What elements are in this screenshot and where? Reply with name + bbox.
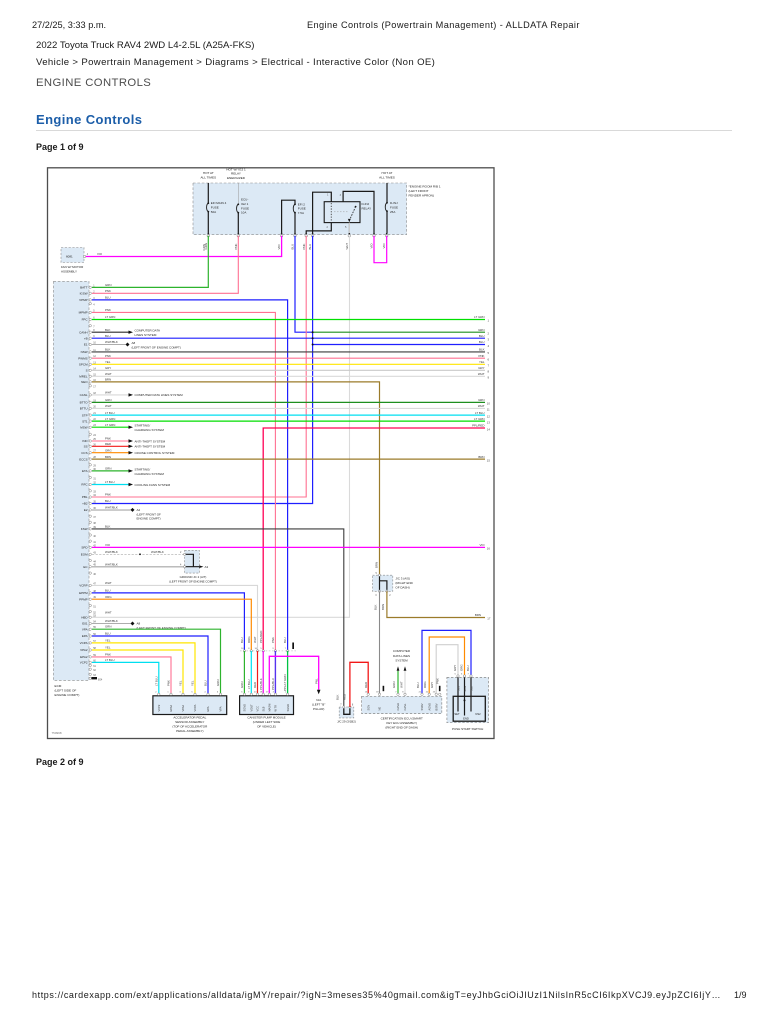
- svg-text:GRN: GRN: [105, 467, 111, 471]
- svg-text:VIO: VIO: [480, 543, 486, 547]
- wire WHT/BLK EC to ground JC 2: [92, 566, 185, 568]
- svg-text:+B: +B: [84, 336, 88, 340]
- svg-text:WHT/BLK: WHT/BLK: [105, 506, 118, 510]
- ECM pin 34 PBL: [82, 493, 111, 500]
- svg-text:GROUND JC 2 (A/T): GROUND JC 2 (A/T): [180, 575, 207, 579]
- svg-text:GRN: GRN: [392, 682, 396, 688]
- svg-text:PNK: PNK: [105, 437, 111, 441]
- fuse D-INJ 25A: [385, 183, 398, 233]
- wire PPL/BLK canister connector to pump: [262, 651, 264, 694]
- cert ECU shield stub: [439, 686, 441, 691]
- svg-text:BTTU: BTTU: [80, 407, 88, 411]
- ECM pin 16 NEO: [81, 378, 111, 385]
- ECM pin 52: [89, 610, 97, 614]
- svg-text:SPCM: SPCM: [79, 363, 88, 367]
- svg-text:BLU: BLU: [105, 499, 111, 503]
- ECM pin 6 FPC: [82, 315, 116, 322]
- svg-text:IGSW: IGSW: [80, 292, 88, 296]
- svg-text:(LEFT FRONT OF ENGINE COMPT): (LEFT FRONT OF ENGINE COMPT): [169, 580, 217, 584]
- wire LT GRN ST1 to right edge 13: [92, 420, 485, 422]
- ECM pin 15 MREL: [79, 372, 112, 379]
- svg-text:VCPA: VCPA: [80, 641, 88, 645]
- fuse EFI 2 7.5A with feed loop: [282, 200, 306, 233]
- ECM pin 1 BATT: [80, 283, 111, 290]
- svg-text:PPMP: PPMP: [79, 597, 88, 601]
- svg-text:PWMS: PWMS: [78, 356, 87, 360]
- svg-text:BLK: BLK: [105, 525, 111, 529]
- svg-text:VIO: VIO: [370, 243, 374, 249]
- svg-text:SS1: SS1: [457, 686, 460, 691]
- wire WHT CANL to computer data lines arrow: [92, 394, 129, 396]
- svg-text:ORG: ORG: [460, 664, 464, 671]
- svg-text:LT BLU: LT BLU: [247, 679, 251, 689]
- svg-text:YEL: YEL: [479, 360, 485, 364]
- svg-text:BLU: BLU: [240, 637, 244, 643]
- svg-text:ECCS: ECCS: [79, 457, 87, 461]
- svg-text:NEO: NEO: [81, 380, 88, 384]
- ECM pin 42 SPD: [81, 543, 110, 550]
- wire GRN canister connector to pump: [243, 651, 245, 694]
- svg-text:CANL: CANL: [80, 393, 88, 397]
- svg-text:WHT: WHT: [253, 636, 257, 643]
- svg-text:VCC: VCC: [256, 706, 260, 712]
- wire WHT VCRP down to canister connector: [92, 585, 258, 651]
- svg-text:GRY: GRY: [453, 665, 457, 671]
- ECM pin 7: [89, 325, 95, 329]
- svg-text:EPA: EPA: [82, 634, 88, 638]
- svg-text:VIO: VIO: [277, 244, 281, 250]
- svg-text:CANISTER PUMP MODULE: CANISTER PUMP MODULE: [247, 716, 285, 720]
- svg-text:SLB: SLB: [261, 706, 265, 711]
- ECM pin 24: [89, 433, 97, 437]
- J/C 29 box: [339, 704, 354, 718]
- svg-text:PNK: PNK: [167, 680, 171, 686]
- svg-text:FUSE: FUSE: [211, 206, 219, 210]
- ECM pin 62: [89, 668, 97, 672]
- wire relay pin3 to VIO loop: [343, 191, 374, 233]
- svg-text:RFC: RFC: [81, 483, 88, 487]
- wire WHT MREL to right edge 9: [92, 375, 485, 377]
- wire BLU from relay coil down to ECM +B2: [92, 236, 313, 504]
- svg-text:WHT/BLK: WHT/BLK: [105, 619, 118, 623]
- svg-text:BLU: BLU: [105, 296, 111, 300]
- svg-text:SYSTEM: SYSTEM: [395, 659, 408, 663]
- svg-text:YEL: YEL: [179, 680, 183, 686]
- svg-text:PNK: PNK: [105, 493, 111, 497]
- svg-text:PNK: PNK: [234, 243, 238, 249]
- J/C 3 box: [373, 572, 393, 597]
- svg-text:RELAY: RELAY: [362, 206, 372, 210]
- svg-text:ORG: ORG: [247, 636, 251, 643]
- svg-text:GRN: GRN: [240, 682, 244, 688]
- svg-text:25A: 25A: [390, 210, 395, 214]
- push start switch box: [447, 664, 489, 723]
- svg-text:CANH: CANH: [396, 703, 400, 710]
- svg-text:ORG: ORG: [105, 448, 112, 452]
- ECM pin 55 VPA: [82, 625, 112, 632]
- svg-text:J/C 3 (A/S): J/C 3 (A/S): [395, 576, 410, 580]
- svg-text:RED: RED: [253, 682, 257, 688]
- svg-text:COMPUTER DATA LINES SYSTEM: COMPUTER DATA LINES SYSTEM: [135, 393, 184, 397]
- cert ECU shield stub near NE pin: [383, 686, 385, 691]
- engine room relay block R/B box: [193, 183, 407, 235]
- svg-text:A3: A3: [205, 565, 209, 569]
- svg-text:ENGINE COMPT): ENGINE COMPT): [55, 693, 80, 697]
- wire BLU cert ECU to push start switch: [422, 630, 471, 694]
- wire BLU EPPM down to canister connector: [92, 593, 244, 651]
- svg-text:STP: STP: [82, 413, 88, 417]
- svg-text:VPA: VPA: [219, 706, 223, 711]
- svg-text:RED: RED: [342, 694, 346, 700]
- svg-text:BLK: BLK: [374, 604, 378, 610]
- svg-text:WHT: WHT: [345, 243, 349, 250]
- wire BLU feed to relay coil pin1: [313, 192, 332, 233]
- svg-text:PNK: PNK: [105, 308, 111, 312]
- svg-text:EFI MAIN 4: EFI MAIN 4: [211, 201, 227, 205]
- ECM pin 59 EPA2: [80, 652, 111, 659]
- ECM pin 47 VCRP: [79, 581, 112, 588]
- svg-text:ETA: ETA: [82, 469, 88, 473]
- ECM pin 12 PWMS: [78, 354, 111, 361]
- svg-text:6081: 6081: [66, 255, 73, 259]
- svg-text:RED: RED: [364, 682, 368, 688]
- svg-text:LT GRN: LT GRN: [105, 417, 115, 421]
- svg-text:BLU: BLU: [204, 680, 208, 686]
- ECM box: [53, 281, 89, 680]
- diagram outer frame: [48, 168, 495, 739]
- svg-text:SGND: SGND: [286, 704, 290, 712]
- svg-text:PPL/RED: PPL/RED: [259, 631, 263, 643]
- svg-text:A8: A8: [132, 341, 136, 345]
- certification ECU box: [362, 692, 442, 714]
- svg-text:WHT: WHT: [478, 372, 485, 376]
- svg-text:ST1: ST1: [82, 419, 88, 423]
- ECM pin 39 KSW: [81, 525, 111, 532]
- svg-text:PNL: PNL: [314, 678, 318, 684]
- svg-text:OF DASH): OF DASH): [395, 585, 409, 589]
- svg-text:16: 16: [487, 547, 491, 551]
- svg-text:WHT: WHT: [478, 404, 485, 408]
- svg-text:BLU: BLU: [105, 334, 111, 338]
- wire relay pin5 WHT: [348, 223, 350, 234]
- svg-text:BLU: BLU: [479, 334, 485, 338]
- svg-text:COMPUTER: COMPUTER: [393, 649, 411, 653]
- label HOT W/ IG2 1 RELAY ENERGIZED: [226, 167, 246, 180]
- svg-text:BLU: BLU: [416, 682, 420, 688]
- wire GRN junction to right edge 2: [313, 331, 485, 333]
- ECM pin 5 MPMP: [79, 308, 111, 315]
- svg-text:YEL: YEL: [105, 360, 111, 364]
- svg-text:ASSEMBLY: ASSEMBLY: [61, 269, 77, 273]
- svg-text:E04: E04: [98, 678, 103, 681]
- svg-text:PNK: PNK: [479, 354, 485, 358]
- svg-text:BRN: BRN: [105, 378, 111, 382]
- svg-text:PPL/LT GRN: PPL/LT GRN: [283, 674, 287, 691]
- svg-text:NS2: NS2: [475, 712, 481, 716]
- wire relay pin2 to PNK feed: [306, 223, 331, 234]
- fuse ECU-IG2 1 10A: [237, 183, 249, 233]
- label canister pump module: [247, 716, 285, 729]
- svg-text:(LEFT FRONT OF ENGINE COMPT): (LEFT FRONT OF ENGINE COMPT): [132, 346, 181, 350]
- svg-text:HOT AT: HOT AT: [382, 171, 393, 175]
- svg-text:LT BLU: LT BLU: [155, 676, 159, 686]
- svg-text:NSW: NSW: [81, 350, 88, 354]
- svg-text:NSW: NSW: [464, 686, 467, 692]
- ECM pin 3 VPMP: [79, 296, 111, 303]
- vertical labels accel pedal wires: [155, 676, 221, 686]
- wire PPL/BLU canister connector to pump: [274, 651, 276, 694]
- svg-text:VPA2: VPA2: [181, 705, 185, 712]
- svg-text:FENDER APRON): FENDER APRON): [409, 193, 434, 197]
- wire PNL magenta to B pillar: [269, 656, 318, 694]
- svg-text:BRN: BRN: [478, 455, 484, 459]
- svg-text:LT GRN: LT GRN: [105, 423, 115, 427]
- svg-text:GRY: GRY: [478, 366, 484, 370]
- ECM pin 51: [89, 604, 97, 608]
- svg-text:(UNDER LEFT SIDE: (UNDER LEFT SIDE: [253, 720, 281, 724]
- svg-text:ORG: ORG: [105, 595, 112, 599]
- svg-text:7.5A: 7.5A: [298, 211, 304, 215]
- svg-text:VCRP: VCRP: [79, 584, 87, 588]
- ECM pin 53 HBD: [81, 610, 112, 619]
- svg-text:GRY: GRY: [105, 366, 111, 370]
- svg-text:ANTI-THEFT SYSTEM: ANTI-THEFT SYSTEM: [135, 445, 166, 449]
- wire WHT/BLK EOM to ground JC 2: [92, 553, 185, 555]
- svg-text:BLU: BLU: [105, 631, 111, 635]
- canister inline connector row: [240, 648, 296, 652]
- label accelerator pedal sensor assembly: [172, 716, 208, 734]
- svg-text:WHT/BLK: WHT/BLK: [105, 340, 118, 344]
- ECM pin 2 IGSW: [80, 289, 111, 296]
- wire LT BLU canister connector to pump: [250, 651, 252, 694]
- svg-text:PPL/RED: PPL/RED: [472, 424, 484, 428]
- svg-text:ALL TIMES: ALL TIMES: [379, 175, 395, 179]
- svg-text:15: 15: [487, 458, 491, 462]
- svg-text:FUSE: FUSE: [390, 205, 398, 209]
- ECM pin 63: [89, 673, 97, 677]
- svg-text:SET: SET: [454, 712, 460, 716]
- svg-text:17: 17: [487, 617, 491, 621]
- svg-text:LT GRN: LT GRN: [474, 315, 484, 319]
- ECM pin 41: [89, 540, 97, 544]
- svg-text:SS: SS: [84, 445, 88, 449]
- svg-text:GRN: GRN: [202, 244, 206, 250]
- ECM pin 19 BTTO: [80, 398, 112, 405]
- svg-text:ENGINE COMPT): ENGINE COMPT): [137, 517, 161, 521]
- svg-text:(LEFT SIDE OF: (LEFT SIDE OF: [55, 689, 77, 693]
- ECM pin 54 E01: [82, 619, 118, 626]
- svg-text:VPA: VPA: [82, 627, 88, 631]
- svg-text:VOUT: VOUT: [250, 704, 254, 712]
- svg-text:VCP2: VCP2: [157, 704, 161, 711]
- svg-text:WHT: WHT: [105, 581, 112, 585]
- svg-text:YEL: YEL: [105, 638, 111, 642]
- svg-text:NE: NE: [378, 707, 382, 711]
- canister pump module box: [240, 692, 294, 715]
- wire color labels below relay block: [204, 243, 386, 250]
- ECM pin 10 E1: [84, 340, 118, 347]
- svg-text:(LEFT FRONT OF: (LEFT FRONT OF: [137, 512, 162, 516]
- svg-text:RELAY: RELAY: [231, 171, 241, 175]
- svg-text:RED: RED: [105, 442, 111, 446]
- wire BLU from EFI 2 fuse down to junction: [295, 236, 313, 332]
- svg-text:VCPA: VCPA: [193, 704, 197, 711]
- svg-text:PNK: PNK: [271, 637, 275, 643]
- svg-text:SS2: SS2: [470, 686, 473, 691]
- ECM pin 23 MSW: [80, 423, 115, 430]
- wire ORG cert ECU to push start switch: [429, 637, 464, 694]
- ECM pin 45 EC: [83, 562, 117, 569]
- wire BLK J/C 3 to certification ECU: [379, 591, 381, 694]
- svg-text:50A: 50A: [211, 210, 216, 214]
- svg-text:KSW: KSW: [81, 527, 88, 531]
- svg-text:EPA2: EPA2: [80, 655, 88, 659]
- svg-text:(RIGHT END OF DASH): (RIGHT END OF DASH): [385, 726, 418, 730]
- wire BLU VPMP down to canister connector: [92, 300, 288, 651]
- wire PPL/LT GRN canister connector to pump: [287, 651, 289, 694]
- ECM pin 48 EPPM: [79, 589, 111, 596]
- svg-text:W TR: W TR: [274, 705, 278, 712]
- svg-text:BRN: BRN: [381, 604, 385, 610]
- svg-text:BLK: BLK: [336, 694, 340, 700]
- svg-text:PILLAR): PILLAR): [313, 707, 324, 711]
- svg-text:EPA2: EPA2: [169, 705, 173, 712]
- ECM pin 46: [89, 572, 97, 576]
- svg-text:PNK: PNK: [302, 243, 306, 249]
- wire VIO SPD to right edge 16: [92, 546, 485, 548]
- right edge wire labels and numbers: [472, 315, 485, 547]
- ECM pin 25 IND: [82, 437, 111, 444]
- fuse EFI MAIN 4 50A: [207, 183, 227, 233]
- ECM pin 35 +B2: [82, 499, 110, 506]
- svg-text:GRY: GRY: [430, 682, 434, 688]
- ECM pin 30 ETA: [82, 467, 111, 474]
- ECM pin 27 CCS: [81, 448, 112, 455]
- svg-text:EFI 2: EFI 2: [298, 202, 306, 206]
- svg-text:BLK: BLK: [479, 348, 485, 352]
- wire WHT/BLK E1 to ground A8: [92, 344, 126, 346]
- wire PNK EPA2 to accel pedal: [92, 657, 171, 694]
- shield terminator mark canister: [292, 643, 294, 650]
- svg-text:CERTIFICATION ECU (SMART: CERTIFICATION ECU (SMART: [381, 716, 423, 720]
- svg-text:WHT: WHT: [399, 681, 403, 688]
- svg-text:PEDAL ASSEMBLY): PEDAL ASSEMBLY): [176, 729, 203, 733]
- ECM pin 40: [89, 534, 97, 538]
- svg-text:E1: E1: [84, 343, 88, 347]
- svg-text:PPL/BLK: PPL/BLK: [259, 678, 263, 690]
- svg-text:YEL: YEL: [105, 645, 111, 649]
- svg-text:BLU: BLU: [283, 637, 287, 643]
- svg-text:+B2: +B2: [82, 502, 88, 506]
- svg-text:MREL: MREL: [79, 375, 88, 379]
- label computer data lines system above cert ECU: [393, 649, 411, 663]
- wire VIO fan motor to EFI 2 fuse: [86, 236, 282, 257]
- svg-text:BSRV: BSRV: [434, 703, 438, 710]
- svg-text:PPL/BLU: PPL/BLU: [271, 678, 275, 690]
- svg-text:ACCELERATOR PEDAL: ACCELERATOR PEDAL: [173, 716, 206, 720]
- label HOT AT ALL TIMES (left): [200, 171, 216, 179]
- svg-text:SGN: SGN: [366, 705, 370, 711]
- svg-text:EPPM: EPPM: [79, 591, 88, 595]
- wire PNK from relay pin2 down to ECM PBL: [92, 236, 306, 497]
- svg-text:BRN: BRN: [475, 613, 481, 617]
- svg-text:PNK: PNK: [105, 354, 111, 358]
- vertical labels canister upper wires: [240, 631, 287, 643]
- svg-text:GRN: GRN: [478, 328, 484, 332]
- wire GRN BTTO to right edge 10: [92, 401, 485, 403]
- svg-text:12: 12: [487, 414, 491, 418]
- svg-text:AGND: AGND: [427, 703, 431, 711]
- wire VIO U-loop under D-INJ relay: [374, 236, 387, 263]
- ECM pin 11 NSW: [81, 348, 111, 355]
- ECM pin 58 VPA2: [80, 645, 111, 652]
- fan w/ motor assembly box: [61, 248, 89, 274]
- svg-text:VPMP: VPMP: [79, 298, 88, 302]
- svg-text:HOT AT: HOT AT: [203, 171, 214, 175]
- ECM pin 56 EPA: [82, 631, 111, 638]
- svg-text:ANTI-THEFT SYSTEM: ANTI-THEFT SYSTEM: [135, 439, 166, 443]
- svg-text:S: S: [86, 369, 88, 373]
- svg-text:VIO: VIO: [97, 252, 103, 256]
- svg-text:N/A: N/A: [316, 698, 321, 702]
- wire BLK NSW to right edge 5: [92, 351, 485, 353]
- wire YEL VPA2 to accel pedal: [92, 650, 183, 694]
- svg-text:(RIGHT END: (RIGHT END: [395, 581, 413, 585]
- wire LT BLU RFC to cooling fans arrow: [92, 484, 129, 486]
- wire WHT from relay pin5 down to ECM HBD: [92, 236, 350, 618]
- wire LT GRN MSW to starting system arrow: [92, 426, 129, 428]
- ground JC 2 box: [180, 550, 208, 573]
- ECM pin 13 SPCM: [79, 360, 111, 367]
- wire WHT cert ECU to push start switch: [436, 645, 458, 695]
- ECM pin 49 PPMP: [79, 595, 112, 602]
- svg-text:WHT: WHT: [105, 391, 112, 395]
- wire BLU junction to right edge 4: [313, 344, 485, 346]
- svg-text:BLU: BLU: [105, 589, 111, 593]
- svg-text:J/C 29 (3/1B2): J/C 29 (3/1B2): [337, 719, 356, 723]
- ECM pin 14 S: [86, 366, 112, 373]
- wire BLK CANH to computer data lines arrow: [92, 331, 129, 333]
- svg-text:WHT: WHT: [105, 404, 112, 408]
- svg-text:ALL TIMES: ALL TIMES: [200, 175, 216, 179]
- svg-text:LT GRN: LT GRN: [474, 417, 484, 421]
- svg-text:E2: E2: [84, 508, 88, 512]
- svg-text:(TOP OF ACCELERATOR: (TOP OF ACCELERATOR: [172, 725, 208, 729]
- svg-text:CRUISE CONTROL SYSTEM: CRUISE CONTROL SYSTEM: [135, 451, 175, 455]
- ECM pin E04 shield stub: [89, 677, 103, 681]
- svg-text:BLK: BLK: [105, 328, 111, 332]
- svg-text:BLU: BLU: [291, 244, 295, 250]
- wire PNK PWMS to right edge 6: [92, 357, 485, 359]
- svg-text:FUSE: FUSE: [298, 207, 306, 211]
- wire WHT/BLK E2 to ground A2: [92, 509, 131, 511]
- wire ORG PPMP down to canister connector: [92, 599, 251, 651]
- wire BLK KSW to J/C 29: [92, 529, 344, 707]
- svg-text:GRN: GRN: [478, 398, 484, 402]
- wire RED J/C 29 to certification ECU: [350, 662, 368, 707]
- svg-text:MSW: MSW: [80, 425, 88, 429]
- wire PPL/RED to right edge 14: [263, 428, 485, 651]
- ECM pin 60 VCP2: [80, 658, 115, 665]
- svg-text:BRN: BRN: [375, 562, 379, 568]
- ECM pin 29: [89, 464, 97, 468]
- svg-text:IND: IND: [82, 439, 88, 443]
- svg-text:FPC: FPC: [82, 318, 89, 322]
- ECM pin 8 CANH: [79, 328, 110, 335]
- svg-text:(LEFT "B": (LEFT "B": [312, 702, 325, 706]
- relay block bottom pin circles with arrows: [207, 233, 388, 237]
- svg-text:CHARGING SYSTEM: CHARGING SYSTEM: [135, 472, 165, 476]
